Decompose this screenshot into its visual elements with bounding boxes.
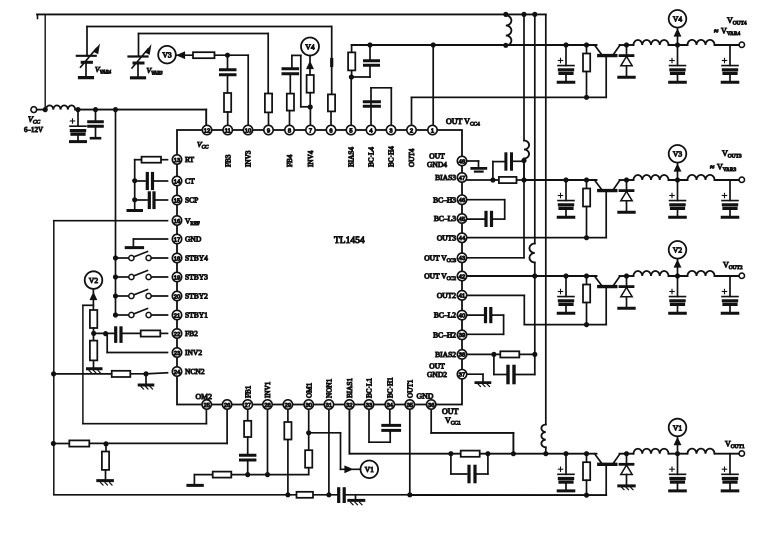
wire pin9 feed from V_VAR3 line [267,34,269,94]
wire INV3 node [215,54,249,56]
diode Dch1 freewheel [624,451,629,456]
capacitor Cch4c output electrolytic [729,45,731,66]
svg-text:6: 6 [329,128,332,134]
pin 2 [407,125,416,134]
svg-text:44: 44 [459,236,466,242]
svg-text:15: 15 [174,198,180,204]
svg-text:25: 25 [203,403,209,409]
wire BIAS4 lead to pin 5 [350,77,352,127]
svg-text:32: 32 [346,403,352,409]
resistor Rch3 base drive [584,177,589,182]
wire STBY common rail vertical [115,110,117,316]
svg-text:OUT2: OUT2 [437,291,456,300]
wire pin26 line [226,409,228,443]
pin 17 [172,234,181,243]
capacitor Cch1c output electrolytic [729,454,731,475]
IC U1 TL1454 outline [177,130,462,405]
pin 41 [457,291,466,300]
wire OUT Vcc1 jog from pin 36 [430,409,432,433]
svg-text:BC–H2: BC–H2 [433,331,456,340]
svg-text:STBY1: STBY1 [185,311,208,320]
pin 4 [366,125,375,134]
capacitor Cch2a rail electrolytic [563,273,568,278]
svg-text:16: 16 [174,219,180,225]
resistor R-pin6 vertical [328,94,335,111]
wire NCN2 line [146,373,168,374]
svg-text:GND4: GND4 [427,160,447,169]
capacitor Cch1b filter electrolytic [677,454,679,475]
wire left vertical from top line to Vcc input [44,14,46,109]
meter V3 [675,177,680,182]
svg-text:VOUT2: VOUT2 [723,261,743,272]
svg-text:18: 18 [174,256,180,262]
wire OUT Vcc3 return [467,257,524,259]
svg-text:33: 33 [366,403,372,409]
ground OUT GND2 pin [467,373,483,375]
pin 34 [385,400,394,409]
capacitor C-BC1 between pins 33 and 34 [368,409,370,442]
resistor R-FB2 [141,330,161,336]
wire bus vertical 2 [532,12,537,17]
meter V1 [675,451,680,456]
svg-text:BC·L4: BC·L4 [368,147,376,167]
svg-text:VCC1: VCC1 [445,416,461,427]
wire channel ch1 base line [410,494,606,496]
pin 21 [172,310,181,319]
svg-text:BC·L1: BC·L1 [366,378,374,398]
svg-text:VOUT3: VOUT3 [722,149,742,160]
wire FB2 node [94,332,114,334]
svg-text:RT: RT [185,155,195,164]
svg-text:FB2: FB2 [185,329,198,338]
capacitor C-BCH3/BCL3 [467,199,505,201]
svg-text:V2: V2 [673,246,682,255]
pin 3 [386,125,395,134]
svg-text:47: 47 [459,176,465,182]
resistor R-BIAS2 [467,353,501,355]
pin 20 [172,291,181,300]
svg-text:27: 27 [244,403,250,409]
svg-text:43: 43 [459,256,465,262]
pin 5 [346,125,355,134]
svg-text:30: 30 [305,403,311,409]
source V_VAR3 variable [138,34,140,57]
wire BIAS1 stub [348,409,350,454]
svg-text:FB3: FB3 [224,154,232,167]
svg-text:OUT1: OUT1 [407,379,415,398]
capacitor Cch3a rail electrolytic [563,177,568,182]
wire INV4 lead to pin 7 [309,107,311,127]
wire pin6 feed from V_VAR4 line [331,27,333,95]
ground bottom line tap [355,495,357,500]
wire FB4-INV4 link [300,55,302,106]
meter V2 [85,271,103,289]
wire INV3 lead to pin 10 [247,55,249,127]
resistor R-FB4 vertical [287,94,294,111]
pin 8 [285,125,294,134]
wire channel ch4 base line [412,96,607,98]
wire BIAS1 drop to rail [348,409,350,454]
wire Vref distribution [54,220,168,222]
svg-text:10: 10 [245,128,251,134]
pin 37 [457,370,466,379]
meter V4 [675,42,680,47]
resistor Rch1 base drive [584,451,589,456]
pin 14 [172,176,181,185]
wire INV2 riser [107,352,167,354]
pin 6 [326,125,335,134]
wire Qch2 base lead [605,288,607,325]
svg-text:BIAS3: BIAS3 [435,173,456,182]
terminal VOUT4 [739,42,744,47]
inductor Lch4b [688,40,715,45]
svg-text:OUT VCC2: OUT VCC2 [424,272,456,283]
wire OUT4 pin2 riser [411,97,413,127]
svg-text:5: 5 [349,128,352,134]
wire Vcc input rail [37,109,46,111]
svg-text:VCC: VCC [197,140,209,151]
pin 38 [457,350,466,359]
svg-text:28: 28 [264,403,270,409]
wire bus vertical 1 [521,12,526,17]
svg-text:8: 8 [288,128,291,134]
inductor Lch3b [688,175,715,180]
svg-text:6–12V: 6–12V [24,126,43,134]
wire OM2 return line [205,409,207,424]
pin 13 [172,155,181,164]
pin 27 [243,400,252,409]
capacitor input bypass [95,110,97,121]
svg-text:VVAR3: VVAR3 [147,66,164,77]
svg-text:V3: V3 [162,51,171,60]
resistor R-V2b [90,341,97,361]
resistor R-lineA inline [213,472,232,478]
svg-text:VREF: VREF [185,216,200,227]
pin 25 [202,400,211,409]
ground left-b [98,479,113,482]
wire line A with ground [194,474,212,476]
wire channel 3 rail from BIAS3 [524,179,597,181]
svg-text:VVAR3: VVAR3 [717,163,736,174]
svg-text:OM2: OM2 [196,392,213,401]
svg-text:INV2: INV2 [185,348,202,357]
inductor L-ch4 feed coil [506,16,512,46]
inductor L-ch2 feed coil [529,244,534,263]
svg-text:36: 36 [428,403,434,409]
pin 12 [202,125,211,134]
wire OUT4 line to channel 4 base [412,96,607,98]
svg-text:46: 46 [459,198,465,204]
svg-text:31: 31 [326,403,332,409]
meter V2 [675,273,680,278]
wire channel 1 rail [349,453,596,455]
wire top Vcc bus line [37,13,546,15]
capacitor C-FB3 [227,55,229,69]
capacitor Cch1a rail electrolytic [563,451,568,456]
meter V3 [158,46,176,64]
switch STBY4 [113,255,118,260]
svg-text:1: 1 [431,128,434,134]
capacitor C-BIAS1 [450,454,452,474]
wire channel ch1 output rail [620,453,634,455]
wire channel ch4 output rail [506,44,597,46]
terminal VOUT2 [739,273,744,278]
resistor R-bot inline [297,492,314,498]
diode Dch4 freewheel [624,42,629,47]
svg-text:2: 2 [410,128,413,134]
svg-text:GND2: GND2 [427,370,447,379]
transistor Qch3 pass [595,180,602,189]
capacitor C-BCL2/BCH2 [467,314,484,316]
resistor R-BIAS1 [461,451,480,457]
wire BIAS3 to rail [467,179,499,181]
svg-text:OUT3: OUT3 [437,233,456,242]
svg-text:VOUT4: VOUT4 [727,16,747,27]
svg-text:OUT4: OUT4 [408,148,416,167]
capacitor C-FB1 [241,454,255,457]
resistor R-FB3 vertical [224,93,231,112]
svg-text:BIAS4: BIAS4 [348,147,356,167]
svg-text:39: 39 [459,333,465,339]
svg-text:CT: CT [185,177,195,186]
svg-text:V1: V1 [365,465,374,474]
capacitor Cch4a rail electrolytic [563,42,568,47]
resistor R-pin29 vertical [287,409,289,422]
wire Qch1 base lead [605,465,607,495]
svg-text:SCP: SCP [185,196,198,205]
svg-text:26: 26 [224,403,230,409]
switch STBY1 [113,312,118,317]
diode Dch3 freewheel [624,177,629,182]
wire INV1 lead [267,409,269,475]
svg-text:NCN2: NCN2 [185,367,205,376]
svg-text:13: 13 [174,158,180,164]
svg-text:BC–H3: BC–H3 [433,195,456,204]
ground pin17 GND [133,238,167,240]
pin 28 [263,400,272,409]
wire Vref bottom return [54,494,338,496]
svg-text:OUT VCC3: OUT VCC3 [424,253,456,264]
wire OUT Vcc4 pin1 riser [432,45,434,127]
svg-text:37: 37 [459,373,465,379]
svg-text:STBY4: STBY4 [185,254,208,263]
svg-text:17: 17 [174,237,180,243]
pin 36 [427,400,436,409]
resistor Rch2 base drive [584,273,589,278]
resistor R-pin9 vertical [265,94,272,113]
ground OUT GND4 pin [467,160,479,162]
svg-text:VVAR4: VVAR4 [721,27,740,38]
terminal VOUT3 [739,177,744,182]
capacitor Cch4b filter electrolytic [677,45,679,66]
pin 19 [172,272,181,281]
svg-text:23: 23 [174,351,180,357]
svg-text:21: 21 [174,313,180,319]
pin 1 [428,125,437,134]
inductor L-ch1 feed coil [541,425,545,448]
capacitor C-CT [155,180,168,182]
svg-text:NON1: NON1 [326,378,334,398]
svg-text:FB1: FB1 [244,385,252,398]
wire V4 lead with arrow [309,56,311,76]
terminal Vcc input [31,107,37,113]
svg-text:BC–L3: BC–L3 [434,214,456,223]
svg-text:BIAS1: BIAS1 [346,378,354,398]
ground V2 divider [93,360,95,368]
wire OUT3 line [467,237,607,239]
capacitor C-bot series [337,489,340,502]
wire Vcc rail drop to pin 12 [205,110,207,127]
svg-text:19: 19 [174,275,180,281]
source V_VAR4 variable [86,27,88,56]
capacitor Cch3b filter electrolytic [677,180,679,201]
pin 10 [243,125,252,134]
wire channel ch2 output rail [620,275,634,277]
wire OUT Vcc2 rail [467,275,597,277]
wire OM1 to V1 meter [309,432,341,434]
wire V_VAR3 to pin9 line [139,33,269,35]
capacitor Cch2b filter electrolytic [677,276,679,297]
capacitor C-BIAS3 [492,162,494,180]
svg-text:OM1: OM1 [305,382,313,398]
pin 23 [172,348,181,357]
resistor R-V2a [90,310,97,328]
svg-text:INV1: INV1 [264,381,272,398]
pin 45 [457,214,466,223]
svg-text:29: 29 [285,403,291,409]
pin 42 [457,271,466,280]
transistor Qch2 pass [595,276,602,285]
capacitor Cch3c output electrolytic [729,180,731,201]
wire Qch3 base lead [605,192,607,238]
inductor L-ch3 feed coil [524,141,529,159]
resistor R-BIAS4 [351,45,353,52]
wire OUT Vcc4 rail [352,44,506,46]
svg-text:BC–L2: BC–L2 [434,311,456,320]
svg-text:V2: V2 [89,276,98,285]
ground CT/SCP [134,181,136,210]
svg-text:7: 7 [309,128,312,134]
pin 29 [283,400,292,409]
svg-text:9: 9 [267,128,270,134]
wire V2 lead [92,289,94,310]
capacitor C-SCP [156,199,168,201]
resistor R-left-a horizontal [69,440,89,446]
pin 46 [457,195,466,204]
pin 30 [304,400,313,409]
node junction Vcc rail [43,107,48,112]
pin 26 [222,400,231,409]
svg-text:≈: ≈ [714,27,719,36]
switch STBY3 [113,274,118,279]
svg-text:BC·H1: BC·H1 [387,377,395,398]
inductor Lch1a [634,449,669,454]
svg-text:STBY2: STBY2 [185,292,208,301]
pin 24 [172,367,181,376]
svg-text:INV3: INV3 [245,150,253,167]
wire bus vertical 3 [545,14,547,424]
wire OM2 riser vertical [82,305,84,423]
svg-text:FB4: FB4 [286,154,294,167]
resistor R-INV3 horizontal [193,52,215,58]
pin 9 [264,125,273,134]
svg-text:V4: V4 [305,42,314,51]
resistor R-INV4 vertical [307,75,314,93]
svg-text:OUT: OUT [442,407,459,416]
pin 31 [324,400,333,409]
resistor Rch4 base drive [584,42,589,47]
wire OUT1 drop [409,409,411,495]
svg-text:11: 11 [225,128,231,134]
svg-text:V3: V3 [673,150,682,159]
meter V1 [361,461,379,479]
svg-text:OUT VCC4: OUT VCC4 [446,117,480,128]
inductor Lch2a [634,271,669,276]
svg-text:40: 40 [459,313,465,319]
pin 16 [172,216,181,225]
capacitor C-BIAS4 [369,45,371,60]
svg-text:VCC: VCC [28,115,40,126]
pin 39 [457,330,466,339]
svg-text:38: 38 [459,353,465,359]
pin 22 [172,329,181,338]
pin 33 [364,400,373,409]
svg-text:INV4: INV4 [307,150,315,167]
wire channel ch2 base line [524,324,606,326]
inductor Lch3a [634,175,669,180]
svg-text:12: 12 [204,128,210,134]
pin 43 [457,253,466,262]
switch STBY2 [113,293,118,298]
wire V3 arrow feed [176,54,193,56]
pin 44 [457,233,466,242]
wire channel ch3 base line [467,237,607,239]
capacitor Cch2c output electrolytic [729,276,731,297]
pin 7 [306,125,315,134]
svg-text:STBY3: STBY3 [185,273,208,282]
wire FB3 lead to pin 11 [227,112,229,127]
transistor Qch4 pass [595,45,602,54]
svg-text:VVAR4: VVAR4 [95,65,112,76]
diode Dch2 freewheel [624,273,629,278]
wire OUT2 jog [467,294,525,296]
svg-text:35: 35 [407,403,413,409]
inductor Lch4a [634,40,669,45]
wire NON1 lead [328,409,330,495]
svg-text:48: 48 [459,159,465,165]
svg-text:24: 24 [174,370,181,376]
resistor R-left-b vertical [105,444,107,452]
resistor R-BIAS3 [499,177,517,183]
resistor R-NCN2 [112,371,131,377]
svg-text:V1: V1 [673,423,682,432]
pin 18 [172,253,181,262]
wire V2 jog to OM2 riser [83,304,94,306]
svg-text:41: 41 [459,294,465,300]
pin 15 [172,195,181,204]
pin 32 [345,400,354,409]
svg-text:GND: GND [185,235,202,244]
pin 48 [457,156,466,165]
pin 35 [405,400,414,409]
svg-text:22: 22 [174,332,180,338]
terminal VOUT1 [739,451,744,456]
ground NCN2 node [145,374,147,384]
inductor input filter choke [46,105,75,109]
resistor R-RT [161,159,168,161]
wire Qch4 base lead [605,57,607,98]
resistor R-FB1 [247,409,249,421]
